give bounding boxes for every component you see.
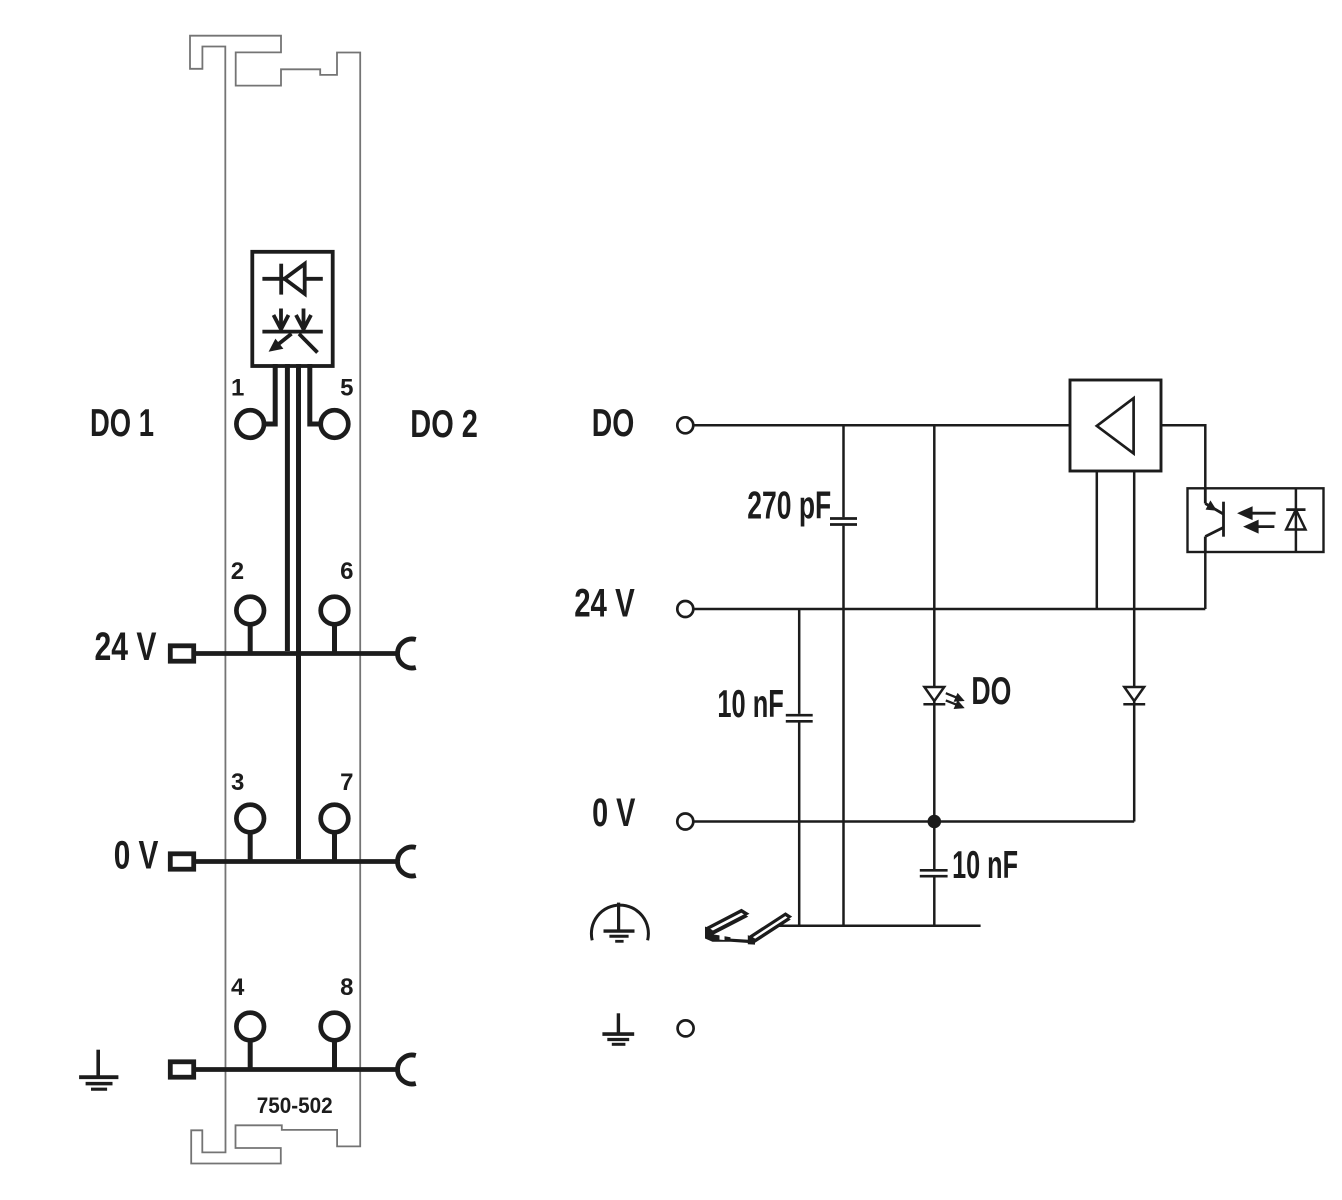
svg-text:10 nF: 10 nF [952,844,1018,887]
svg-text:7: 7 [340,769,353,796]
svg-text:0 V: 0 V [114,834,159,878]
svg-text:DO: DO [971,670,1011,713]
svg-text:4: 4 [231,974,245,1001]
svg-text:6: 6 [340,558,353,585]
svg-text:0 V: 0 V [592,791,636,835]
svg-text:DO 1: DO 1 [90,402,154,445]
svg-text:24 V: 24 V [95,625,157,669]
svg-text:5: 5 [340,375,353,402]
svg-text:3: 3 [231,769,244,796]
svg-text:2: 2 [231,558,244,585]
svg-text:750-502: 750-502 [257,1093,333,1118]
svg-text:1: 1 [231,375,244,402]
svg-text:24 V: 24 V [574,582,635,626]
svg-text:270 pF: 270 pF [747,485,831,528]
svg-text:8: 8 [340,974,353,1001]
svg-text:10 nF: 10 nF [717,683,783,726]
svg-text:DO: DO [592,402,635,445]
svg-text:DO 2: DO 2 [410,403,478,446]
